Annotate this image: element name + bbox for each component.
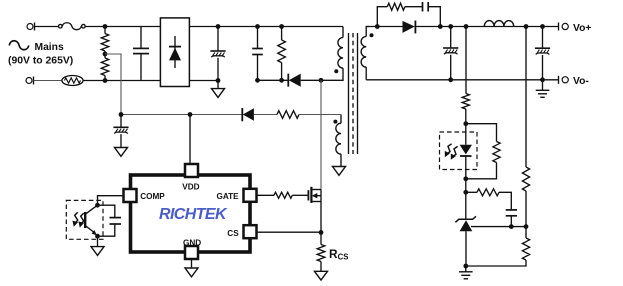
node bulk cap bottom xyxy=(216,78,221,83)
svg-text:GND: GND xyxy=(183,238,201,247)
resistor R2 (startup lower) xyxy=(101,58,108,76)
node clamp cap top xyxy=(255,24,260,29)
node switch/clamp junction xyxy=(319,78,324,83)
wire bridge+ to transformer (top rail) xyxy=(189,26,343,28)
node snubber left xyxy=(375,24,380,29)
wire GATE pin to resistor xyxy=(257,194,274,196)
node LED bottom xyxy=(463,176,468,181)
primary ground xyxy=(217,81,219,89)
feedback ground (earth) xyxy=(465,266,467,272)
resistor R_comp xyxy=(466,189,512,210)
pin VDD xyxy=(185,164,198,177)
capacitor C_fb xyxy=(506,210,517,227)
node C_out1 top xyxy=(448,24,453,29)
wire clamp bottom xyxy=(258,79,289,81)
node LED top xyxy=(463,121,468,126)
node divider mid xyxy=(524,224,529,229)
resistor R1 (startup upper) xyxy=(101,34,108,52)
capacitor Cx (across mains) xyxy=(133,27,149,81)
secondary top rail xyxy=(366,26,402,28)
terminal Vo- xyxy=(559,76,569,84)
svg-text:CS: CS xyxy=(338,252,349,261)
capacitor C_clamp xyxy=(252,27,263,81)
wire clamp node to MOSFET drain xyxy=(320,80,322,189)
primary polarity dot xyxy=(334,69,338,73)
capacitor C_comp xyxy=(98,205,122,236)
transformer core xyxy=(349,33,358,154)
opto ground xyxy=(97,236,99,246)
resistor R_gate xyxy=(274,192,292,198)
diode D_clamp xyxy=(288,74,321,87)
node FB line top xyxy=(464,24,469,29)
node C_fb bottom xyxy=(509,224,514,229)
node bulk cap top xyxy=(216,24,221,29)
wire fuse to bridge (top rail) xyxy=(85,26,160,28)
transformer T1 secondary winding xyxy=(361,27,369,80)
resistor R_bias xyxy=(462,94,469,110)
capacitor C_bulk (electrolytic) xyxy=(210,27,225,81)
opto light arrows xyxy=(75,212,78,224)
node R1/R2 tap xyxy=(103,52,108,57)
opto U2 transistor dashed box xyxy=(66,200,103,239)
svg-text:RICHTEK: RICHTEK xyxy=(159,206,228,223)
wire COMP to opto xyxy=(98,196,124,206)
node VDD cap xyxy=(119,112,124,117)
node R2 bottom rail xyxy=(103,78,108,83)
secondary polarity dot xyxy=(370,33,374,37)
node clamp R top xyxy=(279,24,284,29)
pin GND xyxy=(185,246,198,259)
fuse F1 xyxy=(59,23,86,30)
wire FB top (Vo+ to R_bias), crosses bottom rail xyxy=(465,27,467,94)
label Mains (90V to 265V) xyxy=(8,42,73,66)
secondary bottom rail xyxy=(366,79,558,81)
diode D_out (output rectifier) xyxy=(403,21,451,34)
wire thermistor to bridge (bottom rail) xyxy=(83,80,160,82)
node snubber right xyxy=(438,24,443,29)
Rcs ground xyxy=(315,271,328,280)
wire R_vdd to aux winding xyxy=(299,114,341,116)
LED light arrows xyxy=(446,144,451,155)
wire startup tap to VDD rail xyxy=(105,54,121,115)
svg-text:Vo-: Vo- xyxy=(573,76,589,87)
transformer T1 primary winding xyxy=(321,27,343,81)
wire TL431 ref xyxy=(471,226,526,228)
node top rail / R1 xyxy=(103,24,108,29)
svg-text:Mains: Mains xyxy=(35,42,64,53)
svg-text:Vo+: Vo+ xyxy=(573,23,591,34)
capacitor C_out2 (electrolytic) xyxy=(535,27,550,80)
node comp branch xyxy=(463,190,468,195)
svg-text:GATE: GATE xyxy=(217,192,240,201)
shunt regulator TL431 xyxy=(455,192,476,266)
transistor Q1 MOSFET xyxy=(308,187,321,233)
wire VDD rail to VDD pin xyxy=(189,115,191,164)
diode D_vdd xyxy=(242,108,277,121)
terminal L (line input) xyxy=(27,23,59,31)
divider line from Vo+ xyxy=(525,27,527,168)
pin COMP xyxy=(124,189,137,202)
opto U2 LED dashed box xyxy=(440,132,478,170)
inductor L_out xyxy=(484,21,513,27)
bridge rectifier BD1 xyxy=(160,18,189,87)
node CS / Rcs xyxy=(319,230,324,235)
LED (opto diode) xyxy=(460,124,472,179)
terminal N (neutral input) xyxy=(26,77,62,85)
AC source symbol xyxy=(9,41,29,50)
transformer T1 aux winding xyxy=(336,115,341,167)
resistor R_clamp xyxy=(278,27,286,81)
capacitor C_out1 (electrolytic) xyxy=(443,27,458,80)
resistor R_led (parallel) xyxy=(466,124,500,179)
svg-text:COMP: COMP xyxy=(140,192,165,201)
op IC U1 RICHTEK controller box xyxy=(131,175,251,252)
terminal Vo+ xyxy=(559,23,569,31)
wire bridge- to bulk cap xyxy=(189,80,218,82)
resistor R_fb1 (upper divider) xyxy=(522,167,529,191)
node opto collector xyxy=(95,203,100,208)
IC ground xyxy=(191,260,193,269)
node TL431 anode / ground xyxy=(463,264,468,269)
VDD rail wire xyxy=(121,114,242,116)
resistor R_fb2 (lower divider) xyxy=(466,227,530,266)
svg-text:CS: CS xyxy=(227,229,239,238)
opto phototransistor xyxy=(85,205,97,235)
resistor R_vdd xyxy=(277,111,299,119)
node L_out right xyxy=(524,24,529,29)
pin CS xyxy=(244,225,257,238)
aux ground xyxy=(333,167,346,176)
pin GATE xyxy=(244,189,257,202)
node VDD pin branch xyxy=(188,112,193,117)
capacitor C_vdd (electrolytic) xyxy=(113,115,128,148)
snubber C xyxy=(423,2,441,27)
C_vdd ground xyxy=(115,148,128,157)
resistor Rcs xyxy=(317,232,325,271)
node opto emitter xyxy=(95,234,100,239)
snubber R xyxy=(377,3,422,26)
aux polarity dot xyxy=(333,120,337,124)
svg-text:(90V to 265V): (90V to 265V) xyxy=(8,55,73,66)
secondary ground (earth) xyxy=(542,80,544,91)
wire CS pin to source xyxy=(257,231,321,233)
svg-text:VDD: VDD xyxy=(182,183,199,192)
node C_out2 top xyxy=(540,24,545,29)
thermistor / inrush limiter xyxy=(62,76,83,86)
label Rcs xyxy=(329,247,348,261)
